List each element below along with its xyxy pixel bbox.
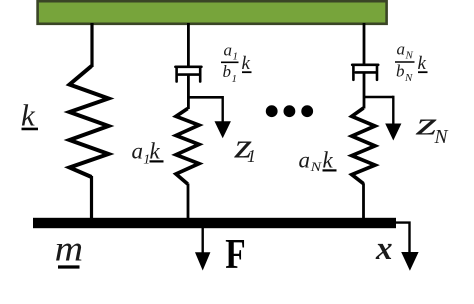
svg-text:F: F	[225, 232, 245, 278]
arrow x (displacement)	[396, 223, 410, 253]
wire: damper 1 piston rod to spring a1k	[187, 75, 190, 109]
wire: left spring top rod	[90, 23, 93, 67]
mass bar m	[33, 218, 396, 228]
svg-text:1: 1	[247, 146, 256, 166]
svg-text:1: 1	[232, 73, 238, 85]
arrow zN	[392, 96, 394, 126]
wire: z1 branch horizontal	[188, 96, 222, 99]
wire: damper N piston rod to spring aNk	[363, 72, 366, 108]
spring a1k	[176, 109, 199, 185]
spring aNk	[352, 108, 375, 184]
damper N (cylinder + piston)	[352, 65, 378, 80]
svg-text:k: k	[150, 138, 161, 163]
svg-text:N: N	[405, 50, 414, 62]
svg-text:k: k	[418, 53, 427, 74]
svg-text:b: b	[223, 62, 232, 81]
arrow z1	[221, 96, 223, 124]
wire: left spring bottom rod	[90, 176, 93, 219]
svg-text:b: b	[396, 62, 405, 81]
fixed support bar (green)	[38, 1, 387, 24]
label zN	[415, 106, 449, 147]
label k (left spring)	[21, 97, 38, 132]
svg-text:a: a	[397, 40, 406, 59]
wire: damper N top rod	[363, 23, 366, 65]
svg-text:k: k	[242, 53, 251, 74]
svg-text:m: m	[55, 228, 84, 268]
label z1	[233, 126, 256, 165]
label m (mass)	[55, 228, 84, 268]
wire: spring a1k bottom rod	[187, 184, 190, 220]
svg-text:N: N	[434, 127, 449, 148]
svg-text:a: a	[299, 147, 311, 172]
label aN/bN k (damper N)	[395, 40, 428, 85]
arrow F (applied force)	[201, 228, 203, 254]
svg-text:1: 1	[233, 51, 239, 63]
spring k	[70, 66, 109, 177]
wire: damper 1 top rod	[187, 23, 190, 67]
label a1k (spring 1)	[132, 138, 164, 167]
label aNk (spring N)	[299, 147, 337, 174]
svg-text:N: N	[404, 72, 413, 84]
label a1/b1 k (damper 1)	[221, 41, 252, 86]
wire: zN branch horizontal	[364, 96, 393, 99]
svg-text:a: a	[132, 138, 144, 163]
damper 1 (cylinder + piston)	[175, 67, 201, 82]
dots (continuation)	[266, 105, 278, 117]
svg-text:N: N	[309, 159, 322, 174]
svg-text:k: k	[323, 147, 334, 172]
svg-text:a: a	[224, 41, 233, 60]
svg-text:x: x	[375, 231, 393, 267]
svg-text:k: k	[21, 97, 36, 132]
wire: spring aNk bottom rod	[362, 183, 365, 219]
